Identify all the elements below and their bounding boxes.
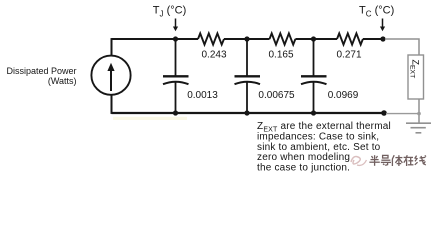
char 导 [381,155,391,165]
char 线 [415,155,426,165]
capacitor 0.0013 [163,39,189,113]
wire top rail segment: R2 to node 3 [295,38,313,40]
impedance box ZEXT [408,55,424,99]
svg-text:0.165: 0.165 [268,50,293,61]
svg-text:Dissipated Power: Dissipated Power [6,66,76,76]
junction node 2 [244,36,249,41]
label TJ (°C) [153,5,186,19]
junction bottom rail right end [381,110,387,116]
resistor 0.165 [270,33,296,44]
resistor 0.271 [337,33,363,44]
svg-text:0.243: 0.243 [201,50,226,61]
note text ZEXT explanation [257,121,391,174]
wire left branch top: corner down to current source [111,38,113,56]
watermark logo swirl [351,157,367,166]
current source (Dissipated Power) [91,56,130,95]
svg-text:0.0969: 0.0969 [328,90,359,101]
wire top rail segment: node 2 to R2 [247,38,270,40]
capacitor 0.00675 [235,39,261,113]
svg-text:the case to junction.: the case to junction. [257,163,350,174]
label TC (°C) [359,5,394,19]
junction bottom rail cap2 [244,110,249,115]
wire top rail segment: R1 to node 2 [224,38,247,40]
bottom rail wire [112,112,385,114]
svg-text:(Watts): (Watts) [48,76,77,86]
svg-text:0.271: 0.271 [336,50,361,61]
junction bottom rail cap1 [173,110,178,115]
wire top rail segment: node 3 to R3 [314,38,338,40]
svg-text:0.00675: 0.00675 [258,90,295,101]
resistor 0.243 [198,33,224,44]
ground [406,123,431,133]
label Dissipated Power (Watts) [6,66,76,86]
wire (gray) bottom rail to ground branch [386,113,419,115]
arrow pointing to node TJ [173,19,178,32]
capacitor 0.0969 [301,39,327,113]
watermark text 半导体在线 (drawn strokes) [369,155,426,166]
arrow pointing to node TC [380,19,385,32]
wire (gray) node TC to ZEXT box top [385,39,419,55]
wire top rail segment: left corner to node TJ [112,38,176,40]
svg-text:zero when modeling: zero when modeling [257,152,350,163]
char 体 [392,155,402,166]
junction bottom rail cap3 [311,110,316,115]
char 半 [369,155,379,166]
faint highlight artifact [113,117,187,120]
wire (gray) ZEXT box bottom to ground [418,99,420,123]
svg-text:sink to ambient, etc. Set to: sink to ambient, etc. Set to [257,142,381,153]
svg-text:impedances: Case to sink,: impedances: Case to sink, [257,131,379,142]
wire left branch bottom: current source down to bottom rail [111,95,113,114]
wire top rail segment: node TJ to R1 [176,38,199,40]
junction (gray) at ground branch [417,112,421,116]
junction node TC [380,36,385,41]
junction node 3 [311,36,316,41]
wire top rail segment: R3 to node TC [363,38,383,40]
junction node TJ [173,36,178,41]
svg-text:0.0013: 0.0013 [187,90,218,101]
char 在 [404,155,414,166]
